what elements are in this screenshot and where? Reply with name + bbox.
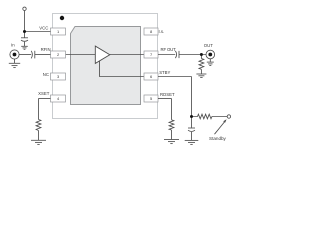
svg-text:In: In [11, 42, 15, 47]
svg-text:VCC: VCC [39, 25, 48, 30]
svg-text:OUT: OUT [204, 43, 213, 48]
svg-text:STBY: STBY [159, 70, 170, 75]
svg-text:Standby: Standby [209, 136, 227, 141]
svg-text:RFIN: RFIN [41, 47, 51, 52]
svg-text:RF OUT: RF OUT [161, 47, 177, 52]
svg-text:RDSET: RDSET [160, 92, 175, 97]
svg-text:XSET: XSET [38, 91, 50, 96]
svg-text:I.s.: I.s. [159, 29, 165, 34]
svg-text:NC: NC [43, 72, 49, 77]
